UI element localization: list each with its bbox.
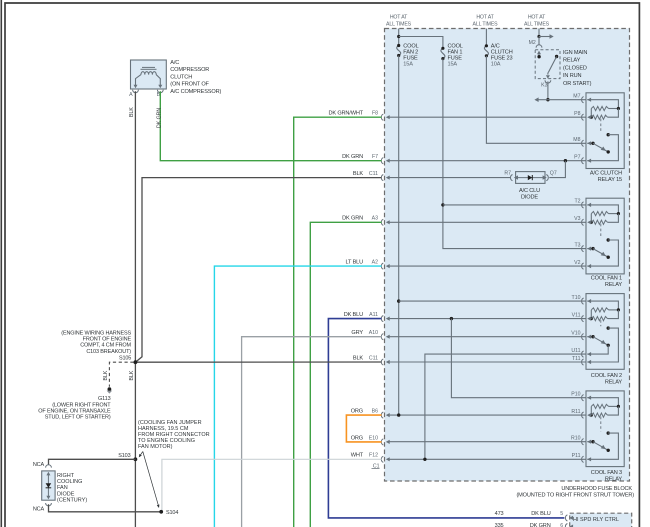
- relay A/C CLUTCH RELAY 15 (U1) coil-armature link: [600, 119, 602, 133]
- svg-text:A2: A2: [372, 260, 378, 266]
- wire DK GRN pin A3 down: [310, 222, 381, 527]
- relay COOL FAN 1 RELAY (U2) pin T2: [582, 202, 584, 208]
- wire F12 to P11: [389, 458, 586, 460]
- svg-text:COOL FAN 1: COOL FAN 1: [591, 276, 622, 282]
- svg-text:DK BLU: DK BLU: [531, 511, 550, 517]
- svg-text:CLUTCH: CLUTCH: [170, 74, 192, 80]
- svg-text:UNDERHOOD FUSE BLOCK: UNDERHOOD FUSE BLOCK: [561, 486, 632, 492]
- wire M7 row: [548, 99, 586, 101]
- wire ORG jumper B6 to E10: [346, 415, 381, 442]
- svg-text:FUSE: FUSE: [448, 55, 463, 61]
- ground G113: [108, 387, 112, 391]
- svg-text:T2: T2: [574, 199, 580, 205]
- splice S104: [159, 510, 163, 514]
- svg-text:ORG: ORG: [351, 435, 363, 441]
- wire fuse feed to COOL FAN 1 FUSE: [399, 37, 443, 49]
- relay COOL FAN 2 RELAY (U3) pin V10: [582, 334, 584, 340]
- svg-text:A11: A11: [369, 312, 378, 318]
- pin F7 (DK GRN) at fuse block: [381, 158, 383, 164]
- svg-text:R10: R10: [571, 436, 581, 442]
- svg-text:COOL FAN 3: COOL FAN 3: [591, 470, 622, 476]
- svg-text:C11: C11: [369, 355, 378, 361]
- svg-text:IGN MAIN: IGN MAIN: [563, 50, 587, 56]
- svg-text:RIGHT: RIGHT: [57, 473, 75, 479]
- relay COOL FAN 3 RELAY (U4) coil: [587, 398, 618, 407]
- wire M2 feed: [538, 29, 540, 37]
- svg-text:DK GRN: DK GRN: [530, 523, 551, 527]
- svg-text:C103 BREAKOUT): C103 BREAKOUT): [86, 349, 131, 355]
- svg-text:M8: M8: [573, 137, 580, 143]
- relay COOL FAN 1 RELAY (U2) (box): [586, 198, 624, 274]
- svg-text:OF ENGINE, ON TRANSAXLE: OF ENGINE, ON TRANSAXLE: [38, 409, 111, 415]
- relay A/C CLUTCH RELAY 15 (U1) pin M7: [582, 97, 584, 103]
- wire DK GRN from clutch pin B to pin F7: [160, 91, 381, 161]
- svg-text:U11: U11: [571, 348, 580, 354]
- svg-text:DK BLU: DK BLU: [344, 312, 363, 318]
- svg-text:COMPRESSOR: COMPRESSOR: [170, 67, 209, 73]
- svg-text:OR START): OR START): [563, 81, 592, 87]
- svg-text:A/C COMPRESSOR): A/C COMPRESSOR): [170, 89, 221, 95]
- svg-text:GRY: GRY: [351, 330, 363, 336]
- wire DK GRN/WHT pin F8 down left side: [294, 117, 382, 527]
- svg-text:C11: C11: [369, 171, 378, 177]
- svg-text:S103: S103: [118, 453, 130, 459]
- pin A10 (GRY) at fuse block: [381, 334, 383, 340]
- wire BLK pin C11 lower to S105: [135, 361, 381, 363]
- pin A2 (LT BLU) at fuse block: [381, 263, 383, 269]
- svg-text:K3: K3: [541, 83, 547, 89]
- svg-text:COMPT, 4 CM FROM: COMPT, 4 CM FROM: [80, 343, 131, 349]
- pin A3 (DK GRN) at fuse block: [381, 219, 383, 225]
- relay COOL FAN 1 RELAY (U2) coil-armature link: [600, 224, 602, 238]
- svg-text:RELAY: RELAY: [563, 58, 581, 64]
- svg-text:A/C CLU: A/C CLU: [519, 188, 540, 194]
- wire E10 to R10: [389, 441, 586, 443]
- svg-text:HOT AT: HOT AT: [528, 15, 546, 21]
- relay COOL FAN 3 RELAY (U4) coil-armature link: [600, 417, 602, 432]
- wire A10 to V10: [389, 336, 586, 338]
- relay COOL FAN 2 RELAY (U3) (box): [586, 294, 624, 370]
- svg-text:DK GRN: DK GRN: [342, 154, 363, 160]
- svg-text:HOT AT: HOT AT: [390, 15, 408, 21]
- svg-text:M7: M7: [573, 94, 580, 100]
- relay A/C CLUTCH RELAY 15 (U1) pin P7: [582, 158, 584, 164]
- svg-text:HOT AT: HOT AT: [476, 15, 494, 21]
- relay COOL FAN 3 RELAY (U4) pin R10: [582, 439, 584, 445]
- A/C compressor clutch pin A: [134, 85, 138, 89]
- wire A2 to V2: [389, 265, 586, 267]
- wire B6 to R11: [389, 414, 586, 416]
- wire NCA S103 to diode top: [49, 459, 136, 465]
- svg-text:DIODE: DIODE: [521, 195, 538, 201]
- component A/C compressor clutch (box): [131, 60, 167, 89]
- wire WHT pin F12 to S104: [162, 459, 382, 512]
- svg-text:A10: A10: [369, 330, 378, 336]
- pin B6 (ORG) at fuse block: [381, 412, 383, 418]
- connector M2: [536, 45, 542, 48]
- svg-text:DK GRN/WHT: DK GRN/WHT: [328, 111, 363, 117]
- connector pin 5 HI SPD RLY CTRL: [565, 515, 567, 521]
- svg-text:DK GRN: DK GRN: [156, 108, 162, 128]
- fuse COOL FAN 2 FUSE 15A: [398, 29, 400, 46]
- svg-text:T11: T11: [572, 356, 581, 362]
- wire DK BLU pin A11 to HI SPD RLY CTRL: [328, 319, 564, 518]
- wire C11 to diode R7: [389, 177, 511, 179]
- relay COOL FAN 2 RELAY (U3) pin T11: [582, 359, 584, 365]
- svg-text:V11: V11: [572, 312, 581, 318]
- svg-text:M2: M2: [529, 40, 536, 46]
- svg-text:RELAY: RELAY: [605, 379, 623, 385]
- svg-text:ALL TIMES: ALL TIMES: [473, 21, 499, 27]
- diode RIGHT COOLING FAN DIODE (CENTURY): [42, 471, 55, 500]
- pin F12 (WHT) at fuse block: [381, 456, 383, 462]
- relay COOL FAN 3 RELAY (U4) pin P10: [582, 395, 584, 401]
- svg-text:V3: V3: [574, 216, 580, 222]
- pin E10 (ORG) at fuse block: [381, 439, 383, 445]
- svg-text:COOL FAN 2: COOL FAN 2: [591, 373, 622, 379]
- svg-text:10A: 10A: [491, 62, 501, 68]
- svg-text:Q7: Q7: [550, 171, 557, 177]
- svg-text:DIODE: DIODE: [57, 491, 75, 497]
- relay COOL FAN 1 RELAY (U2) pin V2: [582, 263, 584, 269]
- svg-text:R7: R7: [504, 171, 511, 177]
- svg-text:FAN: FAN: [57, 485, 68, 491]
- relay COOL FAN 2 RELAY (U3) coil: [587, 301, 618, 310]
- wire T10 row: [399, 300, 586, 302]
- svg-text:E10: E10: [369, 435, 378, 441]
- wire C11 to T11: [389, 361, 586, 363]
- relay COOL FAN 3 RELAY (U4) pin R11: [582, 412, 584, 418]
- svg-text:473: 473: [495, 511, 504, 517]
- relay A/C CLUTCH RELAY 15 (U1) pin P8: [582, 114, 584, 120]
- relay COOL FAN 2 RELAY (U3) coil-armature link: [600, 320, 602, 326]
- svg-text:LT BLU: LT BLU: [345, 260, 363, 266]
- svg-text:BLK: BLK: [103, 370, 109, 380]
- svg-text:5: 5: [560, 511, 563, 517]
- svg-text:FUSE 23: FUSE 23: [491, 55, 513, 61]
- wire LT BLU pin A2 down: [214, 266, 381, 527]
- svg-text:R11: R11: [571, 409, 580, 415]
- svg-text:335: 335: [495, 523, 504, 527]
- svg-text:A/C: A/C: [170, 60, 179, 66]
- page frame: [0, 0, 2, 527]
- svg-text:IN RUN: IN RUN: [563, 73, 581, 79]
- svg-text:HI SPD RLY CTRL: HI SPD RLY CTRL: [573, 517, 619, 523]
- svg-text:P7: P7: [574, 155, 580, 161]
- relay A/C CLUTCH RELAY 15 (U1) pin M8: [582, 140, 584, 146]
- svg-text:S104: S104: [166, 510, 178, 516]
- svg-text:A/C CLUTCH: A/C CLUTCH: [590, 170, 622, 176]
- wire P7 branch to diode Q7: [549, 161, 565, 178]
- svg-text:B6: B6: [372, 409, 378, 415]
- svg-text:T10: T10: [572, 295, 581, 301]
- svg-text:P11: P11: [572, 453, 581, 459]
- wire A11 to V11: [389, 318, 586, 320]
- A/C compressor clutch pin B: [158, 85, 162, 89]
- svg-text:NCA: NCA: [33, 462, 45, 468]
- connector diode bottom: [46, 503, 52, 506]
- wire F7 to P7: [389, 160, 586, 162]
- svg-text:(CENTURY): (CENTURY): [57, 498, 87, 504]
- relay COOL FAN 2 RELAY (U3) pin V11: [582, 316, 584, 322]
- svg-text:ORG: ORG: [351, 409, 363, 415]
- wire U11 row: [425, 354, 586, 459]
- wire NCA diode bottom to S104: [49, 504, 162, 512]
- svg-text:T3: T3: [574, 242, 580, 248]
- relay COOL FAN 1 RELAY (U2) coil: [587, 205, 618, 214]
- svg-text:WHT: WHT: [351, 453, 364, 459]
- relay A/C CLUTCH RELAY 15 (U1) coil: [587, 100, 618, 109]
- svg-text:ALL TIMES: ALL TIMES: [386, 21, 412, 27]
- wire V11 branch to P10: [451, 319, 586, 398]
- svg-text:F7: F7: [372, 154, 378, 160]
- wire BLK pin C11 upper to S105: [135, 178, 381, 363]
- svg-text:S105: S105: [119, 355, 131, 361]
- relay IGN MAIN (CLOSED IN RUN OR START): [535, 50, 560, 79]
- relay COOL FAN 3 RELAY (U4) (box): [586, 391, 624, 467]
- svg-text:STUD, LEFT OF STARTER): STUD, LEFT OF STARTER): [45, 415, 111, 421]
- svg-text:G113: G113: [98, 396, 111, 402]
- svg-text:FAN MOTOR): FAN MOTOR): [138, 444, 173, 450]
- relay COOL FAN 2 RELAY (U3) switch: [607, 326, 610, 329]
- svg-text:V2: V2: [574, 260, 580, 266]
- svg-text:RELAY 15: RELAY 15: [598, 177, 622, 183]
- svg-text:RELAY: RELAY: [605, 477, 623, 483]
- wire A3 to V3: [389, 221, 586, 223]
- connector K3: [545, 80, 551, 83]
- wire BLK S105 to G113 (dashed): [109, 362, 133, 387]
- svg-text:RELAY: RELAY: [605, 282, 623, 288]
- HI SPD RLY CTRL module box: [570, 513, 632, 527]
- svg-text:A: A: [129, 92, 133, 98]
- relay A/C CLUTCH RELAY 15 (U1) (box): [586, 93, 624, 169]
- svg-text:V10: V10: [571, 331, 580, 337]
- svg-text:P8: P8: [574, 111, 580, 117]
- svg-text:COOLING: COOLING: [57, 479, 82, 485]
- connector diode top: [46, 465, 52, 468]
- relay COOL FAN 1 RELAY (U2) pin V3: [582, 219, 584, 225]
- relay COOL FAN 2 RELAY (U3) pin U11: [582, 351, 584, 357]
- splice S105: [134, 360, 138, 364]
- relay COOL FAN 1 RELAY (U2) pin T3: [582, 246, 584, 252]
- leader arrows from note to S103 and S104: [140, 452, 143, 456]
- fuse COOL FAN 1 FUSE 15A: [441, 48, 445, 58]
- wire BLK from clutch pin A down to S105/S103 and below: [134, 91, 136, 527]
- underhood fuse block box: [385, 29, 630, 482]
- pin F8 (DK GRN/WHT) at fuse block: [381, 114, 383, 120]
- svg-text:(ENGINE WIRING HARNESS: (ENGINE WIRING HARNESS: [61, 331, 131, 337]
- svg-text:(MOUNTED TO RIGHT FRONT STRUT: (MOUNTED TO RIGHT FRONT STRUT TOWER): [516, 492, 634, 498]
- svg-text:BLK: BLK: [129, 107, 135, 117]
- svg-text:DK GRN: DK GRN: [342, 216, 363, 222]
- pin C11 (BLK) at fuse block: [381, 359, 383, 365]
- wire T2 row: [443, 204, 586, 206]
- A/C compressor clutch coil: [142, 66, 155, 68]
- svg-text:6: 6: [560, 523, 563, 527]
- svg-text:P10: P10: [571, 392, 580, 398]
- svg-text:15A: 15A: [448, 62, 458, 68]
- splice S103: [134, 457, 138, 461]
- svg-text:(ON FRONT OF: (ON FRONT OF: [170, 82, 209, 88]
- svg-text:15A: 15A: [403, 62, 413, 68]
- svg-text:A3: A3: [372, 216, 378, 222]
- wire A/C CLUTCH FUSE to M8: [486, 56, 586, 144]
- relay COOL FAN 2 RELAY (U3) pin T10: [582, 298, 584, 304]
- svg-text:FUSE: FUSE: [403, 55, 418, 61]
- svg-text:NCA: NCA: [33, 506, 45, 512]
- fuse A/C CLUTCH FUSE 23 10A: [485, 29, 487, 46]
- pin A11 (DK BLU) at fuse block: [381, 316, 383, 322]
- wire GRY pin A10 down: [242, 337, 382, 527]
- diode A/C CLU DIODE: [510, 175, 512, 181]
- relay COOL FAN 1 RELAY (U2) switch: [607, 238, 610, 241]
- svg-text:BLK: BLK: [353, 355, 364, 361]
- wire M7 stub arrow: [538, 99, 548, 101]
- wire F8 to P8 (coil control): [389, 116, 586, 118]
- svg-text:F8: F8: [372, 111, 378, 117]
- relay COOL FAN 3 RELAY (U4) pin P11: [582, 456, 584, 462]
- pin C11 (BLK) at fuse block: [381, 175, 383, 181]
- svg-text:(CLOSED: (CLOSED: [563, 65, 587, 71]
- wire COOL FAN 1 FUSE to T3: [443, 59, 586, 249]
- svg-text:ALL TIMES: ALL TIMES: [524, 21, 550, 27]
- wire K3 to M7: [547, 81, 549, 99]
- relay A/C CLUTCH RELAY 15 (U1) switch: [607, 133, 610, 136]
- svg-text:BLK: BLK: [129, 370, 135, 380]
- relay COOL FAN 3 RELAY (U4) switch: [607, 431, 610, 434]
- wire COOL FAN 2 FUSE down-feed: [398, 56, 400, 416]
- svg-text:F12: F12: [369, 453, 378, 459]
- svg-text:(LOWER RIGHT FRONT: (LOWER RIGHT FRONT: [52, 403, 111, 409]
- svg-text:BLK: BLK: [353, 171, 364, 177]
- connector pin 6 HI SPD RLY CTRL: [565, 524, 567, 527]
